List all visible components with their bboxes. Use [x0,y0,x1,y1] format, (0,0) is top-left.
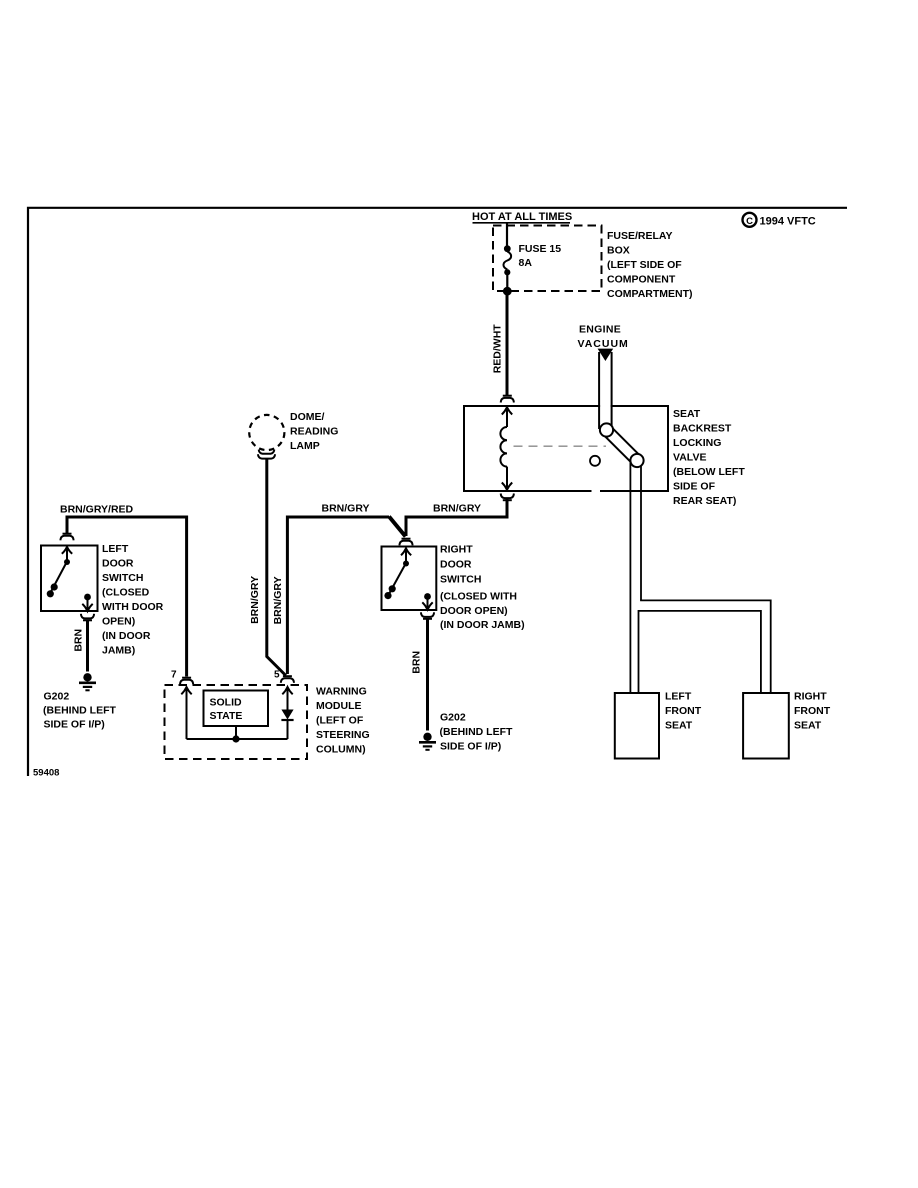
engine vacuum arrow [598,349,614,361]
connector at module pin 7 [180,678,193,685]
svg-text:BRN/GRY: BRN/GRY [249,576,261,624]
svg-text:(CLOSED: (CLOSED [102,587,150,599]
svg-text:VACUUM: VACUUM [578,338,629,350]
svg-text:(BEHIND LEFT: (BEHIND LEFT [43,705,116,717]
label HOT AT ALL TIMES [472,211,572,223]
svg-text:7: 7 [171,670,177,681]
label G202 left [43,691,116,731]
diode [281,710,293,740]
junction dot in module [232,735,239,742]
svg-text:BRN: BRN [73,629,85,652]
left door switch box [41,546,98,612]
wire BRN/GRY valve to right door switch [406,498,507,536]
svg-text:RIGHT: RIGHT [794,691,827,703]
pipe branch to right seat [639,600,771,694]
gap in valve box bottom edge [592,489,601,494]
wire BRN right switch to ground [426,620,429,731]
svg-text:(CLOSED WITH: (CLOSED WITH [440,591,517,603]
fuse/relay box (dashed) [493,226,602,292]
svg-text:MODULE: MODULE [316,700,362,712]
svg-text:LEFT: LEFT [665,691,692,703]
module internal bus wire [187,726,288,739]
svg-text:WITH DOOR: WITH DOOR [102,601,164,613]
svg-text:DOME/: DOME/ [290,411,325,423]
connector at module pin 5 [281,676,294,683]
pipe to seats (vertical drop) [630,460,641,693]
svg-text:8A: 8A [519,257,533,269]
svg-text:(IN DOOR JAMB): (IN DOOR JAMB) [440,619,525,631]
seat backrest locking valve box [464,406,668,491]
label SOLID STATE [210,697,243,723]
mechanical linkage (dashed) [514,445,607,447]
wire BRN/GRY lamp-branch to right door switch [287,517,389,674]
svg-text:SWITCH: SWITCH [440,574,481,586]
svg-text:SIDE OF I/P): SIDE OF I/P) [440,741,501,753]
svg-text:DOOR OPEN): DOOR OPEN) [440,605,508,617]
copyright label 1994 VFTC [743,213,816,228]
label ENGINE VACUUM [578,324,629,351]
svg-text:LEFT: LEFT [102,543,129,555]
svg-text:JAMB): JAMB) [102,645,135,657]
right door switch box [382,547,437,611]
valve pin 2 arrow (bottom) [502,467,512,490]
connector below left switch [81,614,94,621]
svg-text:BACKREST: BACKREST [673,423,732,435]
svg-text:FRONT: FRONT [665,705,702,717]
wire BRN left switch to ground [86,621,89,672]
svg-text:HOT AT ALL TIMES: HOT AT ALL TIMES [472,211,572,223]
module pin 7 arrow [181,687,191,739]
label FUSE 15 8A [519,243,562,269]
svg-text:(BEHIND LEFT: (BEHIND LEFT [440,726,513,738]
svg-text:SIDE OF: SIDE OF [673,481,716,493]
svg-text:COLUMN): COLUMN) [316,744,366,756]
svg-text:DOOR: DOOR [102,558,134,570]
svg-text:READING: READING [290,426,338,438]
svg-text:BOX: BOX [607,245,630,257]
small circle in valve [590,456,600,466]
label LEFT FRONT SEAT [665,691,702,732]
ground G202 right [419,733,436,750]
svg-text:COMPARTMENT): COMPARTMENT) [607,288,693,300]
svg-text:BRN/GRY: BRN/GRY [272,576,284,624]
wire BRN/GRY lamp to module pin 5 [267,459,286,676]
svg-text:BRN/GRY/RED: BRN/GRY/RED [60,504,134,516]
svg-text:(IN DOOR: (IN DOOR [102,630,151,642]
svg-text:1994 VFTC: 1994 VFTC [760,216,816,228]
label WARNING MODULE [316,686,370,756]
svg-text:59408: 59408 [33,768,59,779]
svg-text:STEERING: STEERING [316,729,370,741]
wire from HOT to fuse [506,224,508,248]
solenoid coil [500,427,507,467]
svg-text:G202: G202 [44,691,70,703]
ground G202 left [79,673,96,690]
label G202 right [440,712,513,753]
svg-text:LAMP: LAMP [290,440,320,452]
svg-text:5: 5 [274,670,280,681]
connector below right switch [421,612,434,619]
left front seat box [615,693,659,759]
label RIGHT DOOR SWITCH [440,544,525,632]
svg-text:SIDE OF I/P): SIDE OF I/P) [44,719,105,731]
svg-text:WARNING: WARNING [316,686,367,698]
svg-text:REAR SEAT): REAR SEAT) [673,495,736,507]
wire diagonal into right switch connector [389,517,406,537]
label FUSE/RELAY BOX [607,230,693,300]
svg-text:FUSE 15: FUSE 15 [519,243,562,255]
svg-text:COMPONENT: COMPONENT [607,274,676,286]
svg-text:BRN/GRY: BRN/GRY [322,503,370,515]
wire BRN/GRY/RED [67,517,187,677]
valve pin 1 arrow (top) [502,407,512,427]
svg-text:RED/WHT: RED/WHT [492,324,504,374]
svg-text:SEAT: SEAT [794,720,822,732]
connector at left door switch top [60,534,73,541]
warning module box (dashed) [165,685,308,759]
svg-text:DOOR: DOOR [440,559,472,571]
svg-text:LOCKING: LOCKING [673,437,721,449]
svg-text:BRN/GRY: BRN/GRY [433,503,481,515]
right front seat box [743,693,789,759]
svg-text:RIGHT: RIGHT [440,544,473,556]
svg-text:BRN: BRN [410,651,422,674]
left door switch internals [47,547,93,611]
svg-text:FRONT: FRONT [794,705,831,717]
svg-text:SEAT: SEAT [673,408,701,420]
svg-text:SEAT: SEAT [665,720,693,732]
svg-text:SOLID: SOLID [210,697,243,709]
connector at right door switch top [399,539,412,546]
svg-text:G202: G202 [440,712,466,724]
svg-text:SWITCH: SWITCH [102,572,143,584]
lamp connector cups [258,450,275,459]
svg-text:ENGINE: ENGINE [579,324,621,336]
solid state box [204,691,269,727]
dome/reading lamp [249,415,284,450]
connector at valve top [501,396,514,403]
label SEAT BACKREST LOCKING VALVE [673,408,745,507]
label RIGHT FRONT SEAT [794,691,831,732]
svg-text:FUSE/RELAY: FUSE/RELAY [607,230,673,242]
svg-text:STATE: STATE [210,710,243,722]
valve pivot circle lower [630,454,643,467]
svg-text:(LEFT SIDE OF: (LEFT SIDE OF [607,259,682,271]
connector at valve bottom [501,494,514,501]
valve angled pipe [603,426,641,464]
wire RED/WHT (fuse to valve) [506,291,509,396]
vacuum pipe (vertical into valve) [599,350,612,430]
svg-text:OPEN): OPEN) [102,616,135,628]
label DOME/READING LAMP [290,411,338,452]
module pin 5 arrow [282,687,292,710]
fuse 15 (8A) symbol [503,245,511,291]
valve pivot circle upper [600,423,613,436]
svg-text:VALVE: VALVE [673,452,706,464]
svg-text:(LEFT OF: (LEFT OF [316,715,364,727]
svg-text:C: C [746,216,753,227]
label LEFT DOOR SWITCH [102,543,164,657]
right door switch internals [384,548,432,609]
svg-text:(BELOW LEFT: (BELOW LEFT [673,466,745,478]
junction dot at fuse box exit [503,287,512,296]
